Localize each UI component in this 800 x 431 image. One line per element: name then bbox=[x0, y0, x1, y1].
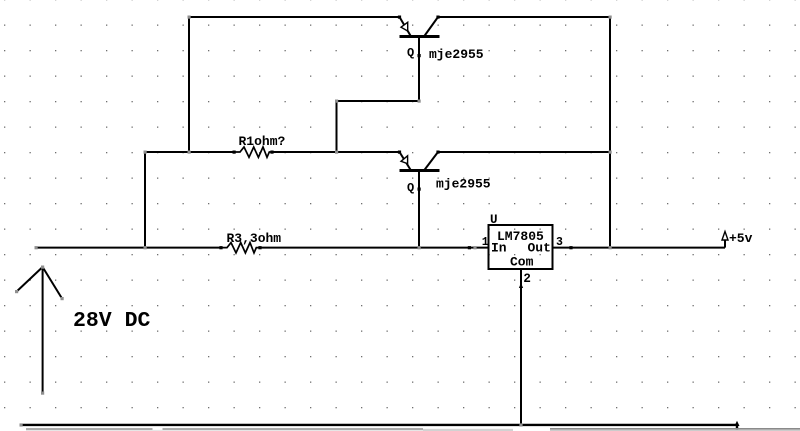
wire top rail right (Q1 collector to right bus) bbox=[438, 16, 610, 18]
junction dot Q1 base bbox=[418, 54, 421, 57]
svg-text:3: 3 bbox=[556, 236, 563, 249]
wire top rail left (to Q1 emitter) bbox=[189, 16, 400, 18]
wire input rail mid segment (R3 to U1 pin1) bbox=[260, 247, 489, 249]
svg-text:mje2955: mje2955 bbox=[436, 177, 491, 192]
wire left branch vertical bbox=[144, 152, 146, 248]
bottom window mid light segment bbox=[423, 429, 513, 431]
svg-text:+5v: +5v bbox=[729, 231, 753, 246]
wire bottom ground rail bbox=[21, 424, 737, 426]
wire Q1 base horizontal jog bbox=[337, 100, 420, 102]
bottom window light strip under C bbox=[550, 430, 800, 431]
28V DC source arrow bbox=[17, 267, 63, 393]
svg-text:R3,3ohm: R3,3ohm bbox=[227, 231, 282, 246]
bottom window edge strip C bbox=[550, 428, 800, 430]
wire output rail (U1 pin3 to +5v) bbox=[553, 247, 726, 249]
wire Q2 collector to right bus bbox=[438, 151, 610, 153]
transistor Q2 bbox=[400, 152, 440, 171]
wire input rail left segment bbox=[36, 247, 221, 249]
svg-text:28V DC: 28V DC bbox=[73, 309, 151, 333]
svg-text:Q: Q bbox=[407, 46, 414, 60]
wire right bus vertical bbox=[609, 17, 611, 248]
wire Q1 base vertical bbox=[418, 38, 420, 102]
wire Q1 base drop to R1 net bbox=[336, 101, 338, 152]
bottom window edge strip A bbox=[26, 428, 153, 430]
+5v terminal arrow bbox=[722, 232, 728, 248]
wire top-left vertical bbox=[188, 17, 190, 152]
grey handles (line endpoints/junctions) bbox=[15, 16, 612, 427]
svg-text:Out: Out bbox=[528, 241, 551, 256]
endpoint dots (component leads) bbox=[219, 16, 572, 250]
resistor R3 bbox=[221, 243, 260, 253]
svg-text:R1ohm?: R1ohm? bbox=[239, 134, 286, 149]
svg-text:Com: Com bbox=[510, 254, 534, 269]
wire R1 net right segment (to Q2 emitter) bbox=[272, 151, 400, 153]
bottom window edge strip B bbox=[163, 428, 424, 430]
regulator U1 LM7805 box bbox=[489, 225, 553, 269]
svg-text:U: U bbox=[490, 213, 498, 227]
bottom rail end terminator arrow bbox=[735, 421, 740, 431]
junction dot Q2 base bbox=[418, 188, 421, 191]
svg-text:mje2955: mje2955 bbox=[429, 47, 484, 62]
bottom window light strip under A/B bbox=[26, 430, 423, 431]
connection marker on pin2 wire bbox=[519, 283, 523, 288]
transistor Q1 bbox=[400, 17, 440, 37]
svg-text:In: In bbox=[491, 241, 507, 256]
svg-text:Q: Q bbox=[407, 181, 414, 195]
wire R1 net left segment bbox=[145, 151, 234, 153]
wire Q2 base vertical bbox=[418, 172, 420, 248]
svg-text:1: 1 bbox=[482, 236, 489, 249]
svg-text:2: 2 bbox=[523, 272, 531, 286]
resistor R1 bbox=[234, 147, 272, 157]
wire U1 pin2 vertical bbox=[520, 269, 522, 425]
